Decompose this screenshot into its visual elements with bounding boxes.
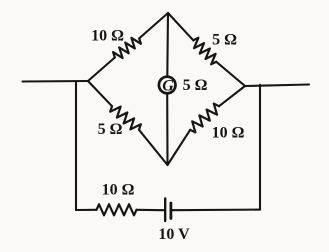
- wire arm B-A lower segment: [88, 58, 115, 82]
- resistor 10 ohm bottom zigzag: [97, 204, 137, 215]
- wire battery loop left vertical: [75, 82, 77, 211]
- wire bottom left segment: [76, 209, 97, 211]
- wire bottom right segment: [172, 209, 260, 212]
- galvanometer G circle: [159, 77, 176, 94]
- svg-text:5 Ω: 5 Ω: [212, 32, 237, 49]
- resistor 5 ohm top-right zigzag: [193, 38, 216, 65]
- resistor 5 ohm bottom-left zigzag: [110, 106, 141, 130]
- wire left lead: [23, 80, 89, 83]
- svg-text:10 Ω: 10 Ω: [212, 125, 245, 142]
- wire galvanometer branch upper: [166, 13, 169, 76]
- svg-text:10 V: 10 V: [158, 226, 190, 243]
- resistor 10 ohm top-left zigzag: [113, 38, 141, 58]
- svg-text:5 Ω: 5 Ω: [98, 121, 123, 138]
- wire right lead: [245, 85, 309, 87]
- wire bottom middle segment: [137, 209, 164, 211]
- battery short plate: [169, 203, 172, 219]
- svg-text:5 Ω: 5 Ω: [183, 77, 208, 94]
- wire arm A-C upper segment: [168, 13, 193, 40]
- wire arm D-C upper segment: [219, 86, 245, 106]
- wire arm B-D upper segment: [88, 81, 112, 106]
- wire battery loop right vertical: [259, 85, 261, 210]
- wire arm A-C lower segment: [216, 62, 245, 86]
- wire arm B-D lower segment: [139, 130, 168, 165]
- wire galvanometer branch lower: [166, 94, 168, 165]
- svg-text:G: G: [162, 78, 174, 95]
- resistor 10 ohm bottom-right zigzag: [190, 104, 219, 133]
- battery long plate: [164, 199, 166, 222]
- svg-text:10 Ω: 10 Ω: [102, 182, 135, 199]
- wire arm B-A upper segment: [139, 13, 168, 38]
- svg-text:10 Ω: 10 Ω: [91, 28, 124, 45]
- wire arm D-C lower segment: [168, 130, 191, 165]
